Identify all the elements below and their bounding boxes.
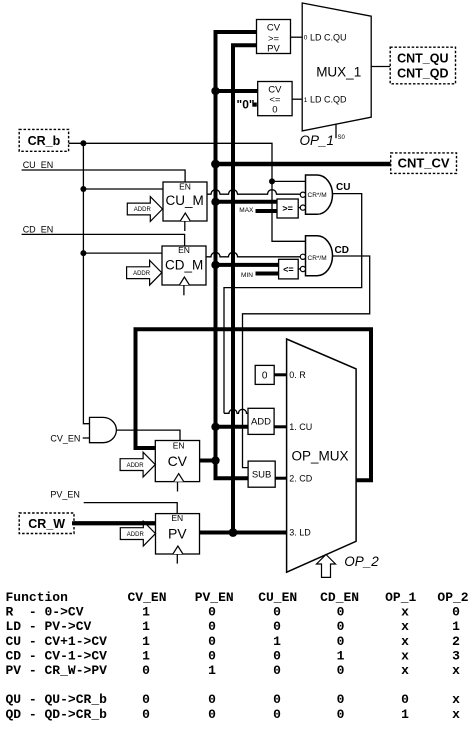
wire: 0 constant to OP_MUX 0.R xyxy=(274,373,287,376)
junction on CR_b net at CU_M input xyxy=(80,186,86,192)
svg-text:MAX: MAX xyxy=(239,207,254,214)
wire: CV bus to <= comparator xyxy=(216,263,279,267)
wire: CV<=0 output to MUX_1 input 1 xyxy=(292,98,302,100)
junction on CV bus at CNT_CV xyxy=(211,160,220,169)
svg-text:ADDR: ADDR xyxy=(127,532,145,538)
svg-text:CD_M: CD_M xyxy=(165,257,203,272)
svg-text:0: 0 xyxy=(273,692,281,707)
svg-text:0: 0 xyxy=(337,663,345,678)
svg-text:0: 0 xyxy=(208,648,216,663)
mux MUX_1 xyxy=(302,3,371,131)
constant 0 box xyxy=(255,365,274,384)
svg-text:x: x xyxy=(401,619,409,634)
svg-text:ADD: ADD xyxy=(251,417,271,428)
svg-text:0: 0 xyxy=(262,370,268,381)
port CR_b xyxy=(19,129,68,151)
wire: MAX input to >= comparator xyxy=(256,209,278,213)
svg-text:<=: <= xyxy=(283,264,294,274)
bubble on CU gate bottom input xyxy=(300,205,305,210)
svg-text:1: 1 xyxy=(304,97,308,104)
svg-text:EN: EN xyxy=(171,513,183,523)
wire: CV bus vertical with top branch to comparator and bottom branch to SUB xyxy=(216,32,257,478)
svg-text:ADDR: ADDR xyxy=(133,271,151,277)
addr pointer for CU_M xyxy=(127,197,162,222)
svg-text:CU_EN: CU_EN xyxy=(258,590,297,605)
clock input triangle CU_M xyxy=(180,213,190,221)
svg-text:QD - QD->CR_b: QD - QD->CR_b xyxy=(6,707,108,722)
svg-text:ADDR: ADDR xyxy=(127,463,145,469)
svg-text:SUB: SUB xyxy=(252,470,272,481)
svg-text:EN: EN xyxy=(178,245,190,255)
svg-text:0: 0 xyxy=(401,692,409,707)
svg-text:LD C.QU: LD C.QU xyxy=(310,33,347,43)
svg-text:0: 0 xyxy=(337,634,345,649)
svg-text:LD - PV->CV: LD - PV->CV xyxy=(6,619,92,634)
wire: CV bus to >= comparator xyxy=(216,200,278,204)
wire: CU loop hop segment over PV bus and CD wire xyxy=(224,409,248,413)
svg-text:0: 0 xyxy=(273,648,281,663)
node "0" constant label for CV<=0 xyxy=(237,97,257,111)
port CR_W xyxy=(19,513,74,534)
svg-text:CNT_CV: CNT_CV xyxy=(398,156,450,171)
junction on CV bus at CV register output xyxy=(211,456,219,464)
svg-text:CU_EN: CU_EN xyxy=(23,160,54,170)
svg-text:"0": "0" xyxy=(237,97,255,111)
svg-text:2: 2 xyxy=(452,634,460,649)
svg-text:1: 1 xyxy=(452,619,460,634)
addr pointer for CV xyxy=(120,452,155,477)
svg-text:0: 0 xyxy=(337,619,345,634)
wire: CU_M clock stub xyxy=(184,221,186,231)
port CNT_QU / CNT_QD xyxy=(390,47,455,84)
clock input triangle PV xyxy=(173,546,183,554)
svg-text:CU: CU xyxy=(336,182,350,193)
svg-text:PV_EN: PV_EN xyxy=(195,590,234,605)
svg-text:1: 1 xyxy=(401,707,409,722)
svg-text:OP_1: OP_1 xyxy=(300,133,335,148)
wire: CR_b branch to CU gate top input xyxy=(272,180,306,182)
wire: >= comparator output to CU gate xyxy=(298,207,300,209)
svg-text:1: 1 xyxy=(142,648,150,663)
svg-text:x: x xyxy=(452,663,460,678)
function table xyxy=(6,590,469,722)
svg-text:0: 0 xyxy=(208,605,216,620)
svg-text:0: 0 xyxy=(452,605,460,620)
svg-text:CD_EN: CD_EN xyxy=(320,590,359,605)
svg-text:1: 1 xyxy=(142,605,150,620)
svg-text:QU - QU->CR_b: QU - QU->CR_b xyxy=(6,692,108,707)
wire: CD gate output loop to SUB xyxy=(243,256,370,468)
svg-text:PV_EN: PV_EN xyxy=(50,490,80,500)
addr pointer for PV xyxy=(120,521,155,546)
svg-text:CR_b: CR_b xyxy=(28,134,61,148)
alu SUB xyxy=(248,461,275,487)
svg-text:x: x xyxy=(401,605,409,620)
svg-text:x: x xyxy=(452,707,460,722)
wire: CV register output to CV bus xyxy=(200,459,216,463)
svg-text:Function: Function xyxy=(6,590,69,605)
junction on CR_b net at CD_M input xyxy=(80,250,86,256)
junction on CV bus at >= tap xyxy=(211,198,219,206)
wire: CV bus to ADD input xyxy=(216,425,249,429)
wire: PV_EN to PV enable xyxy=(84,503,178,514)
svg-text:x: x xyxy=(401,634,409,649)
wire: CR_W to PV register input (over ADDR pointer) xyxy=(72,521,156,525)
wire: MUX_1 S0 select stub xyxy=(335,124,337,138)
wire: CR_b to CU_M data input xyxy=(83,188,163,190)
register CV xyxy=(155,441,199,482)
svg-text:1: 1 xyxy=(273,634,281,649)
wire: CD_EN to CD_M enable xyxy=(22,234,185,246)
wire: <= comparator output to CD gate xyxy=(298,268,300,270)
svg-text:x: x xyxy=(452,692,460,707)
svg-text:OP_2: OP_2 xyxy=(344,554,379,569)
svg-text:x: x xyxy=(401,663,409,678)
register PV xyxy=(156,513,200,554)
svg-text:0: 0 xyxy=(208,634,216,649)
bubble on CU gate middle input xyxy=(300,192,305,197)
bubble on CD gate bottom input xyxy=(300,266,305,271)
svg-text:0: 0 xyxy=(208,707,216,722)
wire: CV clock stub xyxy=(177,482,179,492)
and-gate CU edge detector xyxy=(300,175,332,214)
svg-text:CNT_QU: CNT_QU xyxy=(397,51,448,65)
junction on CR_b net at CU gate branch xyxy=(269,178,275,184)
wire: CR_b left branch down to CV_EN gate xyxy=(83,143,89,423)
svg-text:EN: EN xyxy=(179,181,191,191)
port CNT_CV xyxy=(391,153,457,174)
svg-text:0: 0 xyxy=(208,619,216,634)
svg-text:PV - CR_W->PV: PV - CR_W->PV xyxy=(6,663,108,678)
svg-text:1. CU: 1. CU xyxy=(289,422,312,432)
and-gate CV enable xyxy=(90,417,117,442)
select arrow OP_2 xyxy=(317,555,336,578)
svg-text:0: 0 xyxy=(337,707,345,722)
svg-text:S0: S0 xyxy=(338,135,346,141)
wire: OP_MUX output feedback to CV register input xyxy=(136,329,372,480)
clock input triangle CV xyxy=(174,474,184,482)
svg-text:3: 3 xyxy=(452,648,460,663)
svg-text:0: 0 xyxy=(304,35,308,42)
comparator CV<=0 xyxy=(258,82,292,116)
clock input triangle CD_M xyxy=(179,277,189,285)
svg-text:1: 1 xyxy=(142,634,150,649)
svg-text:x: x xyxy=(401,648,409,663)
svg-text:CV_EN: CV_EN xyxy=(128,590,167,605)
svg-text:0: 0 xyxy=(272,105,277,116)
junction on PV bus at 3.LD xyxy=(229,528,238,537)
wire: CR_b to CD_M data input xyxy=(83,252,162,254)
svg-text:MUX_1: MUX_1 xyxy=(316,65,361,80)
svg-text:CU_M: CU_M xyxy=(165,193,203,208)
svg-text:0: 0 xyxy=(337,692,345,707)
svg-text:1: 1 xyxy=(208,663,216,678)
and-gate CD edge detector xyxy=(300,236,332,276)
wire: CV_EN to enable gate xyxy=(83,437,90,439)
svg-text:0: 0 xyxy=(142,663,150,678)
svg-text:0: 0 xyxy=(273,707,281,722)
mux OP_MUX xyxy=(287,339,357,572)
svg-text:0: 0 xyxy=(273,663,281,678)
svg-text:CV: CV xyxy=(267,23,281,34)
wire: PV clock stub xyxy=(176,554,178,564)
svg-text:CD_EN: CD_EN xyxy=(23,224,54,234)
svg-text:3. LD: 3. LD xyxy=(289,528,311,538)
wire: enable gate output to CV register EN xyxy=(117,430,180,440)
svg-text:>=: >= xyxy=(282,204,293,214)
svg-text:0: 0 xyxy=(208,692,216,707)
svg-text:CNT_QD: CNT_QD xyxy=(397,66,448,80)
wire: CV>=PV output to MUX_1 input 0 xyxy=(291,36,303,38)
svg-text:CD - CV-1->CV: CD - CV-1->CV xyxy=(6,648,108,663)
svg-text:R - 0->CV: R - 0->CV xyxy=(6,605,84,620)
svg-text:EN: EN xyxy=(173,441,185,451)
alu ADD xyxy=(248,408,274,434)
svg-text:0: 0 xyxy=(273,619,281,634)
wire: PV bus vertical with top branch to comparator xyxy=(233,45,257,532)
svg-text:0: 0 xyxy=(142,707,150,722)
wire: CNT_CV output line xyxy=(216,162,391,167)
svg-text:CU - CV+1->CV: CU - CV+1->CV xyxy=(6,634,108,649)
wire: CU gate output loop to ADD xyxy=(224,194,362,414)
svg-text:0. R: 0. R xyxy=(289,370,306,380)
wire: PV register output to OP_MUX 3.LD xyxy=(199,531,286,535)
svg-text:LD C.QD: LD C.QD xyxy=(310,94,347,104)
junction on CR_b net at left branch xyxy=(80,140,86,146)
svg-text:2. CD: 2. CD xyxy=(289,473,313,483)
svg-text:PV: PV xyxy=(267,43,280,54)
register CD_M xyxy=(162,245,206,285)
wire: CR_b net to CD gate top input xyxy=(69,143,306,241)
junction on CV bus at CV<=0 tap xyxy=(211,87,219,95)
svg-text:CR*/M: CR*/M xyxy=(308,192,327,199)
svg-text:ADDR: ADDR xyxy=(134,207,152,213)
addr pointer for CD_M xyxy=(127,260,162,285)
svg-text:0: 0 xyxy=(273,605,281,620)
wire: MIN input to <= comparator xyxy=(256,272,279,276)
wire: CR_W to PV register input xyxy=(72,521,156,525)
wire: CV bus to CV<=0 comparator xyxy=(216,89,258,93)
comparator <= with MIN xyxy=(279,259,299,279)
svg-text:0: 0 xyxy=(337,605,345,620)
svg-text:CD: CD xyxy=(335,245,349,256)
comparator CV>=PV xyxy=(257,20,291,55)
svg-text:1: 1 xyxy=(337,648,345,663)
svg-text:MIN: MIN xyxy=(241,272,253,279)
svg-text:0: 0 xyxy=(142,692,150,707)
comparator >= with MAX xyxy=(277,199,298,218)
svg-text:CV: CV xyxy=(168,453,188,469)
svg-text:1: 1 xyxy=(142,619,150,634)
bubble on CD gate middle input xyxy=(300,254,305,259)
svg-text:OP_2: OP_2 xyxy=(437,590,468,605)
register CU_M xyxy=(163,181,207,221)
wire: CD_M clock stub xyxy=(183,285,185,295)
wire: SUB output to OP_MUX 2.CD xyxy=(275,477,286,480)
wire: MUX_1 output to CNT_QU/CNT_QD xyxy=(371,66,390,68)
junction on CV bus at ADD tap xyxy=(211,423,219,431)
svg-text:CR_W: CR_W xyxy=(28,517,65,531)
wire: CU_EN to CU_M enable xyxy=(22,170,186,182)
junction on CV bus at <= tap xyxy=(211,261,219,269)
svg-text:OP_MUX: OP_MUX xyxy=(291,449,348,464)
svg-text:CR*/M: CR*/M xyxy=(308,255,327,262)
wire: CU_M output to CU gate with hops xyxy=(207,190,300,195)
wire: ADD output to OP_MUX 1.CU xyxy=(274,425,287,428)
svg-text:PV: PV xyxy=(168,526,187,542)
svg-text:OP_1: OP_1 xyxy=(385,590,416,605)
svg-text:CV_EN: CV_EN xyxy=(50,433,80,443)
wire: CD_M output to CD gate with hops xyxy=(206,252,301,257)
